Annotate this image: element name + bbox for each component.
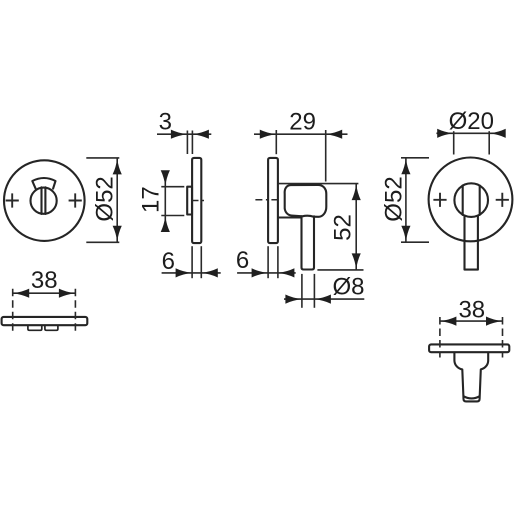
side view 2 spindle shaft: [302, 216, 315, 269]
dim 17: extension line bottom: [161, 215, 184, 217]
dim 29: extension line right: [325, 130, 327, 182]
svg-text:Ø52: Ø52: [380, 176, 407, 221]
dim 29: extension line left: [275, 130, 277, 154]
dim 6 (side view 1): arrow right: [202, 268, 218, 277]
dim 38 (left): extension line right (dashed): [74, 289, 76, 334]
dim 29: dimension line: [254, 133, 348, 135]
dim 6 (side view 1): extension line left: [191, 246, 193, 278]
bottom view right: grip end arc: [464, 396, 480, 398]
dim 6 (side view 1): arrow left: [176, 268, 192, 277]
rosette front view (left): outer circle Ø52: [4, 160, 85, 241]
dim Ø20: extension line right: [488, 131, 490, 154]
screw mark right (+) right rosette: [496, 193, 509, 207]
dim 38 (left): dimension line: [13, 292, 76, 294]
dim 38 (left): arrow pointing right: [59, 289, 75, 298]
dim Ø8: arrow right: [315, 295, 331, 304]
dim Ø20: dimension line: [436, 132, 505, 134]
dim Ø52 (left view): dimension line: [116, 158, 118, 242]
dim 17: extension line top: [161, 186, 184, 188]
dim 17: arrow down to top edge: [161, 170, 170, 186]
dim Ø52 (right view): arrow down: [401, 226, 410, 242]
dim 3: extension line right: [191, 131, 193, 155]
dim Ø52 (right view): arrow up: [401, 158, 410, 174]
dim Ø52 (left view): arrow down: [113, 226, 122, 242]
svg-text:38: 38: [458, 296, 485, 323]
dim 52: arrow down: [352, 253, 361, 269]
dim 38 (right): extension line right (dashed): [502, 317, 504, 358]
dim 17: dimension line: [164, 171, 166, 232]
dim 3: arrow right: [193, 130, 209, 139]
bottom view left: rosette bar: [2, 317, 88, 325]
side view 1 centre line: [192, 200, 208, 202]
dim 6 (side view 1): extension line right: [200, 246, 202, 278]
svg-text:6: 6: [162, 248, 175, 275]
dim 52: dimension line: [355, 184, 357, 270]
dim Ø52 (right view): extension line bottom: [401, 241, 429, 243]
dim 6 (side view 2): arrow right: [278, 268, 294, 277]
svg-text:Ø20: Ø20: [449, 108, 494, 135]
dim 3: extension line left: [186, 131, 188, 155]
side view 2 plate (thumbturn rosette profile): [268, 158, 278, 243]
dim 6 (side view 2): extension line right: [277, 246, 279, 278]
thumbturn grip slot line right: [44, 187, 46, 214]
dim 38 (right): arrow pointing right: [486, 317, 502, 326]
svg-text:3: 3: [159, 109, 172, 136]
side view 1 plate (rosette profile): [192, 158, 201, 243]
svg-text:38: 38: [31, 267, 58, 294]
dim Ø8: arrow left: [285, 295, 301, 304]
screw mark right (+): [69, 193, 82, 207]
side view 2 neck top line / 52 extension: [279, 183, 359, 185]
dim 38 (right): dimension line: [440, 320, 503, 322]
svg-text:Ø8: Ø8: [332, 274, 364, 301]
dim Ø8: extension line right: [313, 274, 315, 308]
dim 52: bottom extension line: [317, 269, 363, 271]
dim 6 (side view 2): arrow left: [252, 268, 268, 277]
dim Ø52 (right view): extension line top: [401, 157, 429, 159]
bottom view right: rosette bar: [429, 344, 509, 352]
dim 3: dimension line: [157, 133, 211, 135]
svg-text:6: 6: [236, 247, 249, 274]
dim 3: arrow left: [171, 130, 187, 139]
dim Ø20: arrow left: [437, 129, 453, 138]
dim Ø20: arrow right: [490, 129, 506, 138]
knob flat chord left: [462, 185, 464, 215]
turn knob circle Ø20: [454, 183, 488, 217]
dim 6 (side view 1): dimension line: [162, 272, 221, 274]
side view 2 centre line: [255, 199, 281, 201]
dim 38 (left): extension line left (dashed): [12, 289, 14, 334]
rosette front view (right): outer circle Ø52: [429, 158, 513, 242]
side view 1 hub (3mm boss): [187, 187, 192, 215]
dim 17: arrow up to bottom edge: [161, 216, 170, 232]
dim Ø52 (left view): extension line top: [86, 157, 119, 159]
dim 52: arrow up: [352, 184, 361, 200]
dim 29: arrow right: [326, 130, 342, 139]
dim 38 (right): extension line left (dashed): [439, 317, 441, 358]
dim Ø52 (left view): extension line bottom: [86, 241, 119, 243]
turn grip stem: [465, 216, 478, 270]
dim Ø20: extension line left: [453, 131, 455, 154]
screw mark left (+) right rosette: [433, 193, 446, 207]
bottom view right: thumbturn grip profile: [454, 353, 488, 401]
thumbturn boss inner circle: [30, 188, 56, 214]
svg-text:29: 29: [289, 109, 316, 136]
side view 2 thumbturn knob body: [285, 185, 327, 217]
dim Ø8: dimension line: [284, 298, 364, 300]
svg-text:17: 17: [138, 186, 165, 213]
bottom view left: clip tab 2: [45, 326, 58, 330]
dim Ø8: extension line left: [301, 274, 303, 308]
dim 6 (side view 2): dimension line: [237, 272, 296, 274]
dim 38 (left): arrow pointing left: [13, 289, 29, 298]
dim Ø52 (right view): dimension line: [405, 158, 407, 242]
side view 2 neck bottom line: [279, 216, 302, 218]
svg-text:Ø52: Ø52: [91, 176, 118, 221]
dim 6 (side view 2): extension line left: [267, 246, 269, 278]
dim Ø52 (left view): arrow up: [113, 158, 122, 174]
dim 38 (right): arrow pointing left: [440, 317, 456, 326]
dim 29: arrow left: [260, 130, 276, 139]
thumbturn crown knob: [32, 178, 55, 189]
svg-text:52: 52: [330, 214, 357, 241]
bottom view left: clip tab 1: [28, 326, 42, 330]
knob flat chord right: [479, 186, 481, 215]
thumbturn grip slot line left: [40, 187, 42, 214]
screw mark left (+): [6, 193, 19, 207]
